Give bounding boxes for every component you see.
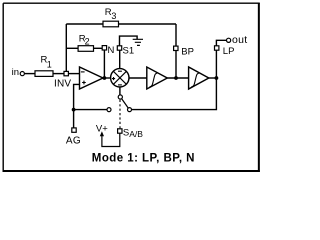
switch blade <box>122 99 129 109</box>
op-amp U1 <box>80 67 104 89</box>
resistor R2 <box>78 46 93 52</box>
junction BP <box>174 76 178 80</box>
svg-text:S1: S1 <box>123 45 135 56</box>
svg-text:1: 1 <box>47 60 52 70</box>
node N pad <box>102 46 106 50</box>
switch right throw contact <box>128 108 132 112</box>
resistor R1 <box>35 71 53 77</box>
svg-text:V+: V+ <box>96 123 108 134</box>
wire N drop to op-amp output <box>103 50 105 78</box>
border frame <box>3 3 260 172</box>
svg-text:A/B: A/B <box>129 129 143 139</box>
wire feedback riser <box>65 24 67 71</box>
wire in to R1 <box>25 73 36 75</box>
node AG pad <box>72 128 76 132</box>
wire riser to R3 <box>66 23 103 25</box>
wire dashed control line <box>119 100 121 129</box>
wire LP pad to out <box>216 40 226 46</box>
summer U2 <box>111 69 129 87</box>
junction AG <box>72 108 76 112</box>
switch pivot contact <box>118 95 122 99</box>
integrator U3 <box>147 67 168 89</box>
wire INV pad to op-amp <box>69 73 80 75</box>
svg-text:3: 3 <box>111 11 116 21</box>
wire op-amp output <box>103 77 111 79</box>
svg-text:out: out <box>232 34 248 46</box>
svg-text:BP: BP <box>181 47 194 58</box>
node S1 pad <box>117 46 121 50</box>
wire summer bottom stem <box>119 87 121 95</box>
node out terminal <box>227 38 231 42</box>
wire summer top riser to S1 <box>119 50 121 68</box>
svg-text:AG: AG <box>66 135 81 146</box>
node BP pad <box>174 46 178 50</box>
wire S1 to ground <box>120 36 138 46</box>
resistor R3 <box>103 21 119 27</box>
svg-text:Mode 1: LP, BP, N: Mode 1: LP, BP, N <box>92 152 195 164</box>
wire BP drop to junction <box>175 51 177 79</box>
integrator U4 <box>189 67 209 89</box>
wire integrator1 to integrator2 <box>167 77 188 79</box>
svg-text:N: N <box>108 45 115 56</box>
svg-text:2: 2 <box>85 37 90 47</box>
wire summer to integrator 1 <box>129 77 147 79</box>
junction op-amp output / N <box>103 76 107 80</box>
arrowhead V+ <box>100 131 104 136</box>
wire R3 to BP corner <box>119 24 177 46</box>
svg-text:in: in <box>12 67 19 78</box>
wire LP riser <box>215 50 217 78</box>
wire V+ arrow <box>102 133 120 146</box>
svg-text:LP: LP <box>223 46 235 57</box>
wire LP feedback down and left <box>132 78 217 110</box>
wire integrator2 to LP junction <box>209 77 217 79</box>
ground <box>133 39 143 45</box>
svg-text:INV: INV <box>54 79 71 90</box>
node in terminal <box>20 72 24 76</box>
wire R2 to N pad <box>94 47 103 49</box>
wire AG junction to switch left throw <box>74 109 107 111</box>
node LP pad <box>215 46 219 50</box>
wire riser to R2 <box>66 47 78 49</box>
wire op-amp plus input to AG <box>74 84 80 128</box>
wire R1 to INV pad <box>53 73 64 75</box>
node INV pad <box>64 71 68 75</box>
node S pad <box>118 129 122 133</box>
switch left throw contact <box>107 108 111 112</box>
junction LP <box>215 76 219 80</box>
